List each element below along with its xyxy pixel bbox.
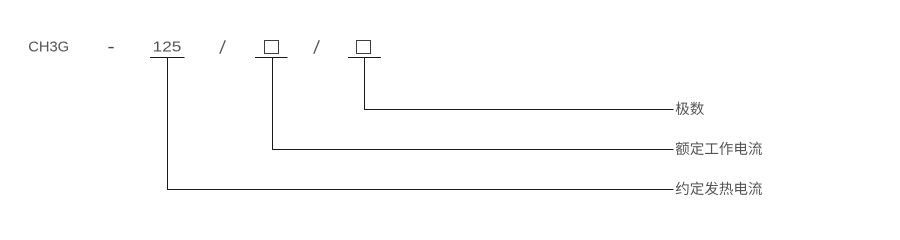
svg-text:125: 125: [153, 39, 182, 56]
label: rated working current: [676, 142, 762, 156]
slash separator 2: [314, 40, 320, 53]
leader line from box 1 (horizontal): [272, 149, 674, 151]
dash separator: [108, 47, 113, 48]
label: number of poles: [676, 102, 704, 115]
underline under 125: [150, 57, 185, 59]
placeholder box 2: [357, 41, 371, 54]
leader line from box 2 (vertical): [364, 57, 366, 110]
underline under box 2: [348, 57, 381, 59]
underline under box 1: [255, 57, 288, 59]
leader line from 125 (vertical): [167, 57, 169, 190]
slash separator 1: [220, 40, 226, 53]
label: conventional free air thermal current: [676, 182, 762, 196]
leader line from box 2 (horizontal): [364, 109, 674, 111]
placeholder box 1: [265, 41, 279, 54]
svg-text:CH3G: CH3G: [28, 39, 69, 56]
leader line from box 1 (vertical): [272, 57, 274, 150]
leader line from 125 (horizontal): [167, 189, 674, 191]
